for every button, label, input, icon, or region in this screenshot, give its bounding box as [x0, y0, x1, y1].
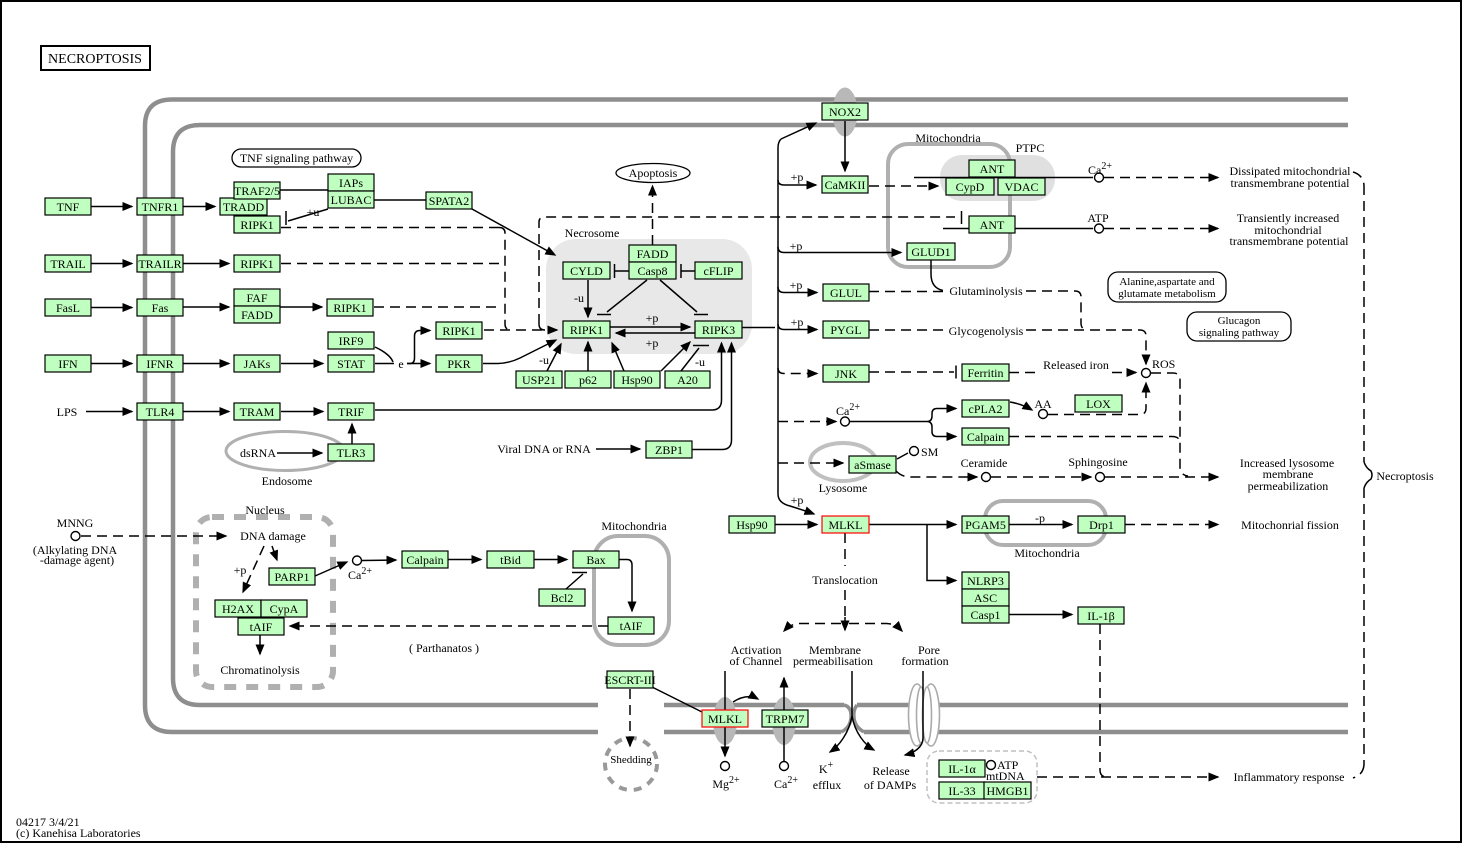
svg-text:+p: +p	[791, 170, 804, 184]
gene box RIPK1 (necrosome)	[563, 321, 610, 338]
gene box MLKL (membrane, red)	[702, 710, 748, 727]
gene box tBid	[487, 551, 534, 568]
svg-text:USP21: USP21	[522, 373, 556, 387]
mitochondria rounded rect (Bax/tAIF)	[594, 536, 669, 645]
pore outer ellipse right	[923, 684, 940, 746]
svg-text:SM: SM	[921, 445, 939, 459]
gene box VDAC	[998, 178, 1045, 195]
svg-text:IFN: IFN	[58, 357, 78, 371]
wire TRPM7 down to Ca node	[783, 727, 785, 761]
dashed bus collector B bottom corner	[539, 324, 545, 330]
nucleus dashed rounded rect	[196, 517, 333, 687]
cell membrane outer top line	[145, 100, 1348, 127]
gene box TLR3	[328, 444, 374, 461]
svg-text:IL-33: IL-33	[948, 784, 975, 798]
gene box IFNR	[137, 355, 183, 372]
dashed arrow into necrosome RIPK1	[484, 329, 557, 331]
svg-text:tAIF: tAIF	[620, 619, 643, 633]
svg-text:+p: +p	[646, 311, 659, 325]
dashed Calpain output to right collector	[1009, 437, 1180, 444]
svg-text:TNFR1: TNFR1	[142, 200, 179, 214]
wire MLKL channel down to Mg node	[724, 727, 726, 756]
cell membrane inner bottom line	[173, 678, 1348, 705]
wire FADD to RIPK1 (Fas row)	[280, 306, 322, 308]
svg-text:PYGL: PYGL	[830, 323, 861, 337]
wire TRIF to RIPK3 (long)	[375, 343, 722, 410]
cell membrane inner left edge	[171, 152, 176, 678]
svg-text:DNA damage: DNA damage	[240, 529, 306, 543]
gene box CypA	[261, 600, 307, 617]
wire STAT to node e	[375, 363, 394, 365]
wire IRF9 curve to node e	[375, 347, 393, 362]
svg-text:-u: -u	[695, 355, 705, 369]
gene box cFLIP	[695, 262, 742, 279]
wire Ca node to Calpain	[362, 559, 396, 562]
wire Membrane permeabilisation down through gap	[851, 671, 853, 718]
svg-text:Lysosome: Lysosome	[819, 481, 868, 495]
wire IFNR to JAKs	[183, 363, 229, 365]
gene box RIPK1 (IFN row)	[436, 322, 482, 339]
svg-text:JAKs: JAKs	[244, 357, 271, 371]
node ATP	[1095, 224, 1104, 233]
wire JAKs to STAT	[281, 363, 323, 365]
pore inner ellipse left	[917, 687, 926, 743]
node Ca2+ (influx)	[780, 762, 789, 771]
gene box FAF	[234, 289, 280, 306]
dashed right bracket vertical with necroptosis brace	[1363, 185, 1365, 765]
svg-text:RIPK1: RIPK1	[240, 218, 273, 232]
dashed to Dissipated potential	[1104, 177, 1218, 179]
svg-text:A20: A20	[677, 373, 698, 387]
gene box FasL	[45, 299, 91, 316]
svg-text:ATP: ATP	[1087, 211, 1109, 225]
svg-text:Chromatinolysis: Chromatinolysis	[220, 663, 300, 677]
svg-text:Hsp90: Hsp90	[736, 518, 767, 532]
svg-text:Viral DNA or RNA: Viral DNA or RNA	[497, 442, 591, 456]
svg-text:Hsp90: Hsp90	[621, 373, 652, 387]
svg-text:permeabilisation: permeabilisation	[793, 654, 873, 668]
svg-text:PKR: PKR	[447, 357, 470, 371]
wire cPLA2 to AA node	[1010, 402, 1032, 410]
svg-text:Sphingosine: Sphingosine	[1068, 455, 1127, 469]
dashed tAIF (mito) to tAIF (nucleus)	[290, 625, 608, 627]
wire Activation of Channel down to MLKL channel	[724, 671, 726, 710]
node Ca2+ (mitochondria)	[1095, 173, 1104, 182]
dashed Ferritin to Released iron to ROS	[1009, 372, 1136, 374]
svg-text:Translocation: Translocation	[812, 573, 878, 587]
dashed bus RIPK1 (TRAIL row) output	[281, 263, 505, 265]
gene box IL-1b	[1078, 607, 1124, 624]
gene box PYGL	[823, 321, 869, 338]
mitochondria rounded rect (PGAM5/Drp1)	[985, 501, 1106, 545]
gene box Casp1	[962, 606, 1009, 623]
svg-text:RIPK3: RIPK3	[702, 323, 735, 337]
svg-text:Released iron: Released iron	[1043, 358, 1109, 372]
wire SPATA2 to CYLD arrow	[472, 209, 555, 255]
gene box IFN	[45, 355, 91, 372]
gene box Calpain (nucleus row)	[402, 551, 448, 568]
svg-text:Mitochondria: Mitochondria	[1014, 546, 1080, 560]
svg-text:aSmase: aSmase	[854, 458, 891, 472]
svg-text:RIPK1: RIPK1	[240, 257, 273, 271]
svg-text:Calpain: Calpain	[406, 553, 443, 567]
svg-text:LOX: LOX	[1086, 397, 1111, 411]
svg-text:mtDNA: mtDNA	[986, 769, 1025, 783]
svg-text:e: e	[398, 357, 403, 371]
wire TRIF up from TLR3	[351, 424, 353, 444]
gene box PKR	[436, 355, 482, 372]
svg-text:Bax: Bax	[586, 553, 605, 567]
svg-text:FADD: FADD	[637, 247, 669, 261]
node Ceramide	[982, 473, 991, 482]
wire MLKL to PGAM5	[869, 524, 956, 526]
wire LPS to TLR4	[86, 411, 132, 413]
svg-text:MLKL: MLKL	[829, 518, 863, 532]
svg-text:signaling pathway: signaling pathway	[1199, 327, 1280, 339]
svg-text:NECROPTOSIS: NECROPTOSIS	[48, 52, 142, 67]
wire TNFR1 to TRADD	[183, 206, 215, 208]
cell membrane inner top line	[173, 125, 1348, 152]
gene box PGAM5	[962, 516, 1009, 533]
gene box FADD (necrosome)	[629, 245, 676, 262]
gene box JNK	[823, 365, 869, 382]
gene box USP21	[516, 371, 562, 388]
svg-text:PARP1: PARP1	[275, 570, 310, 584]
gene box Calpain (cytosol)	[962, 428, 1009, 445]
svg-text:ZBP1: ZBP1	[655, 443, 683, 457]
dashed aSmase to Ceramide	[896, 471, 977, 477]
svg-text:Necrosome: Necrosome	[565, 226, 620, 240]
svg-text:TRAF2/5: TRAF2/5	[234, 184, 280, 198]
pore outer ellipse left	[909, 684, 926, 746]
wire Calpain to tBid	[448, 559, 481, 561]
gene box p62	[565, 371, 611, 388]
gene box Fas	[137, 299, 183, 316]
dashed AA to LOX to ROS	[1048, 383, 1146, 415]
wire PARP1 to Ca node (nucleus)	[315, 562, 347, 576]
svg-text:LUBAC: LUBAC	[331, 193, 372, 207]
wire Hsp90 to RIPK3	[661, 342, 690, 371]
dashed Drp1 to Mitochonrial fission	[1125, 524, 1218, 526]
branch MLKL line down to NLRP3	[927, 525, 956, 581]
svg-text:glutamate metabolism: glutamate metabolism	[1118, 288, 1216, 300]
wire GLUD1 down to glutaminolysis	[931, 260, 943, 291]
pathway link TNF signaling pathway	[232, 149, 361, 167]
wire PKR to necrosome RIPK1	[483, 340, 556, 364]
lysosome ellipse	[810, 443, 876, 481]
wire NOX2 down to CaMKII	[844, 121, 846, 171]
wire node e to PKR	[407, 363, 430, 365]
svg-text:+p: +p	[234, 563, 247, 577]
gene box FADD (Fas row)	[234, 306, 280, 323]
svg-text:NLRP3: NLRP3	[967, 574, 1004, 588]
gene box MLKL (red)	[822, 516, 869, 533]
dashed ROS to right collector	[1151, 373, 1188, 476]
gene box TRADD	[220, 198, 267, 215]
gene box SPATA2	[426, 192, 472, 209]
MLKL channel ellipse	[713, 697, 737, 745]
membrane permeabilisation gap cap right	[854, 705, 864, 732]
svg-text:IL-1β: IL-1β	[1087, 609, 1114, 623]
inhibition LUBAC to RIPK1 T-bar	[286, 209, 328, 225]
svg-text:TRAM: TRAM	[240, 405, 275, 419]
svg-text:RIPK1: RIPK1	[333, 301, 366, 315]
gene box CypD	[946, 178, 994, 195]
svg-text:efflux: efflux	[813, 778, 841, 792]
wire TRPM7 up arrow	[783, 678, 785, 710]
svg-text:tBid: tBid	[500, 553, 521, 567]
svg-text:formation: formation	[901, 654, 948, 668]
svg-text:H2AX: H2AX	[222, 602, 254, 616]
svg-text:+u: +u	[307, 205, 320, 219]
wire TRAILR to RIPK1	[183, 263, 229, 265]
gene box IRF9	[328, 332, 374, 349]
dashed MNNG row	[71, 532, 80, 541]
svg-text:(c) Kanehisa Laboratories: (c) Kanehisa Laboratories	[16, 826, 141, 840]
svg-text:Mitochonrial fission: Mitochonrial fission	[1241, 518, 1339, 532]
wire Membrane permeabilisation to K+ efflux	[830, 716, 852, 752]
svg-text:-u: -u	[574, 291, 584, 305]
svg-text:Inflammatory response: Inflammatory response	[1234, 770, 1345, 784]
inhibition cFLIP T-bar to Casp8	[681, 264, 695, 278]
inhibition Casp8 diagonal T-bar to RIPK3	[660, 280, 708, 315]
wire RIPK1 to RIPK3 (+p)	[610, 326, 690, 328]
dashed IL-1b down to inflammatory line	[1100, 624, 1107, 777]
svg-text:cFLIP: cFLIP	[704, 264, 734, 278]
node Ca2+ (cytosol)	[841, 417, 850, 426]
svg-text:Ferritin: Ferritin	[968, 366, 1004, 380]
gene box LOX	[1075, 395, 1122, 412]
svg-text:IL-1α: IL-1α	[948, 762, 976, 776]
dashed bus vertical collector A	[499, 228, 511, 331]
svg-text:of DAMPs: of DAMPs	[864, 778, 917, 792]
necroptosis brace kink	[1364, 462, 1372, 488]
branch +p to CaMKII	[778, 180, 816, 185]
gene box HMGB1	[984, 782, 1031, 799]
svg-text:TLR3: TLR3	[337, 446, 366, 460]
dashed Glycogenolysis to ROS	[1026, 330, 1146, 364]
svg-text:RIPK1: RIPK1	[442, 324, 475, 338]
dashed GLUL to Glutaminolysis	[869, 291, 946, 293]
gene box GLUD1	[907, 243, 955, 260]
dashed FADD up to Apoptosis	[652, 186, 654, 245]
node AA	[1039, 410, 1048, 419]
svg-text:transmembrane potential: transmembrane potential	[1230, 234, 1350, 248]
dashed Sphingosine to Increased lysosome arrow	[1105, 476, 1218, 478]
endosome ellipse	[226, 432, 344, 471]
wire tBid to Bax	[534, 559, 567, 561]
svg-text:TRIF: TRIF	[338, 405, 364, 419]
translocation branch down to Membrane permeabilisation	[844, 617, 846, 630]
gene box TRAILR	[137, 255, 183, 272]
gene box STAT	[328, 355, 374, 372]
svg-text:cPLA2: cPLA2	[969, 402, 1003, 416]
svg-text:MNNG: MNNG	[57, 516, 94, 530]
svg-text:ANT: ANT	[980, 218, 1005, 232]
main vertical curve +p to MLKL	[778, 494, 814, 514]
node Mg2+	[721, 762, 730, 771]
svg-text:transmembrane potential: transmembrane potential	[1231, 176, 1351, 190]
DAMPs dashed rounded box	[927, 751, 1037, 803]
gene box RIPK1 (TRAIL row)	[234, 255, 280, 272]
necrosome gray blob	[546, 239, 752, 354]
svg-text:+p: +p	[790, 239, 803, 253]
gene box TRPM7	[762, 710, 808, 727]
wire dsRNA to TLR3	[277, 452, 322, 454]
wire main vertical to NOX2	[781, 123, 816, 139]
wire RIPK3 to RIPK1 (+p)	[616, 332, 695, 334]
svg-text:Shedding: Shedding	[610, 754, 652, 766]
gene box RIPK1 (TNF row)	[234, 216, 280, 233]
arrow into Calpain	[940, 436, 956, 438]
gene box IAPs	[328, 174, 374, 191]
svg-text:Casp8: Casp8	[638, 264, 668, 278]
svg-text:GLUD1: GLUD1	[911, 245, 950, 259]
dashed translocation branch left to Activation of Channel	[784, 624, 841, 632]
gene box tAIF (nucleus)	[238, 618, 284, 635]
wire ESCRT-III to MLKL (membrane)	[650, 686, 702, 712]
TRPM7 channel ellipse	[772, 697, 796, 745]
gene box RIPK1 (Fas row)	[327, 299, 373, 316]
svg-text:Nucleus: Nucleus	[245, 503, 285, 517]
svg-text:JNK: JNK	[835, 367, 857, 381]
wire CYLD -u down to RIPK1	[587, 280, 589, 317]
wire Ca node to cPLA2/Calpain split	[850, 409, 940, 437]
dashed translocation branch right to Pore formation	[849, 624, 902, 632]
T-bar at Ferritin	[955, 366, 957, 379]
gene box Hsp90 (necrosome)	[614, 371, 660, 388]
cell membrane outer left edge	[143, 126, 148, 705]
svg-text:FasL: FasL	[56, 301, 80, 315]
dashed aSmase row from main vertical	[778, 462, 843, 464]
branch +p to GLUL	[778, 287, 817, 293]
gene box NOX2	[822, 103, 868, 120]
svg-text:Mitochondria: Mitochondria	[601, 519, 667, 533]
svg-text:Drp1: Drp1	[1089, 518, 1114, 532]
dashed ESCRT-III down to shedding	[629, 689, 631, 746]
wire USP21 -u to RIPK1	[547, 344, 561, 371]
gene box LUBAC	[328, 191, 374, 208]
wire ANT2 to ATP node	[943, 228, 1093, 230]
svg-text:TNF: TNF	[57, 200, 80, 214]
svg-text:STAT: STAT	[337, 357, 365, 371]
svg-text:MLKL: MLKL	[708, 712, 742, 726]
gene box CaMKII	[822, 176, 868, 193]
svg-text:( Parthanatos ): ( Parthanatos )	[409, 641, 479, 655]
wire Fas to FAF/FADD	[183, 306, 229, 308]
svg-text:CYLD: CYLD	[570, 264, 603, 278]
gene box ANT (PTPC)	[969, 160, 1015, 177]
cell membrane outer bottom line	[145, 705, 1348, 732]
dashed PYGL to Glycogenolysis	[869, 329, 946, 331]
svg-text:Glycogenolysis: Glycogenolysis	[949, 324, 1024, 338]
inhibition A20 -u T-bar to RIPK3	[681, 346, 709, 372]
svg-text:+p: +p	[791, 315, 804, 329]
gene box TRAIL	[45, 255, 91, 272]
svg-text:TRAILR: TRAILR	[138, 257, 181, 271]
wire TRAM to TRIF	[281, 411, 323, 413]
gene box GLUL	[823, 284, 869, 301]
svg-text:CaMKII: CaMKII	[825, 178, 866, 192]
dashed Glutaminolysis to glycogenolysis line	[1026, 291, 1087, 330]
svg-text:NOX2: NOX2	[829, 105, 861, 119]
gene box TRAF2/5	[234, 182, 280, 199]
svg-text:FAF: FAF	[246, 291, 267, 305]
svg-text:Casp1: Casp1	[971, 608, 1001, 622]
dashed branch to JNK	[778, 368, 817, 374]
wire Pore formation down through pore to Release of DAMPs	[905, 671, 923, 755]
wire DNA damage to PARP1	[272, 546, 277, 560]
wire Bax to tAIF	[619, 560, 632, 612]
gene box TLR4	[137, 403, 183, 420]
node Sphingosine	[1096, 473, 1105, 482]
svg-text:Glutaminolysis: Glutaminolysis	[949, 284, 1023, 298]
gene box RIPK3	[695, 321, 742, 338]
gene box Casp8	[629, 262, 676, 279]
dashed CaMKII to CypD	[869, 185, 938, 187]
node ROS	[1142, 369, 1151, 378]
gene box TRAM	[234, 403, 280, 420]
dashed bus vertical collector B	[539, 217, 955, 324]
gene box A20	[665, 371, 710, 388]
svg-text:ESCRT-III: ESCRT-III	[604, 673, 656, 687]
svg-text:+p: +p	[790, 278, 803, 292]
dashed to Transiently increased potential	[1104, 228, 1218, 230]
pathway link Glucagon signaling pathway	[1187, 312, 1291, 341]
svg-text:ROS: ROS	[1152, 357, 1175, 371]
svg-text:FADD: FADD	[241, 308, 273, 322]
dashed JNK T-bar to Ferritin	[869, 371, 954, 373]
svg-text:RIPK1: RIPK1	[570, 323, 603, 337]
gene box ESCRT-III	[607, 671, 653, 688]
svg-text:ASC: ASC	[974, 591, 997, 605]
svg-text:tAIF: tAIF	[250, 620, 273, 634]
branch +p to GLUD1	[778, 247, 901, 253]
wire TRAIL to TRAILR	[91, 263, 132, 265]
shedding vesicle dashed circle	[605, 738, 657, 790]
gene box Bcl2	[539, 589, 585, 606]
svg-text:IAPs: IAPs	[339, 176, 363, 190]
dashed DAMPs box to Inflammatory response	[1037, 776, 1218, 778]
svg-text:+p: +p	[791, 493, 804, 507]
svg-text:Necroptosis: Necroptosis	[1376, 469, 1434, 483]
node Ca2+ (nucleus export)	[353, 556, 362, 565]
svg-text:of Channel: of Channel	[730, 654, 784, 668]
svg-text:Alanine,aspartate and: Alanine,aspartate and	[1119, 276, 1215, 288]
svg-text:Ceramide: Ceramide	[961, 456, 1008, 470]
inhibition Casp8 T-bar to CYLD	[615, 264, 630, 278]
svg-text:IRF9: IRF9	[339, 334, 364, 348]
gene box CYLD	[563, 262, 610, 279]
svg-text:VDAC: VDAC	[1004, 180, 1038, 194]
inhibition Casp8 diagonal T-bar to RIPK1	[597, 280, 647, 315]
pathway link Alanine aspartate glutamate metabolism	[1108, 272, 1226, 302]
svg-text:TRADD: TRADD	[223, 200, 265, 214]
wire LUBAC to SPATA2	[374, 199, 426, 201]
gene box tAIF (mitochondria)	[608, 617, 654, 634]
dashed right bracket bottom hook	[1353, 765, 1364, 778]
gene box aSmase	[849, 456, 896, 473]
dashed +p DNA damage to H2AX	[243, 546, 264, 592]
svg-text:Mitochondria: Mitochondria	[915, 131, 981, 145]
svg-text:PGAM5: PGAM5	[965, 518, 1006, 532]
wire RIPK3 to main vertical	[741, 327, 775, 329]
svg-text:ANT: ANT	[980, 162, 1005, 176]
svg-text:p62: p62	[579, 373, 597, 387]
gene box Hsp90 (MLKL)	[729, 516, 775, 533]
pore inner ellipse right	[923, 687, 932, 743]
inhibition T-bar into ANT2	[961, 211, 963, 224]
